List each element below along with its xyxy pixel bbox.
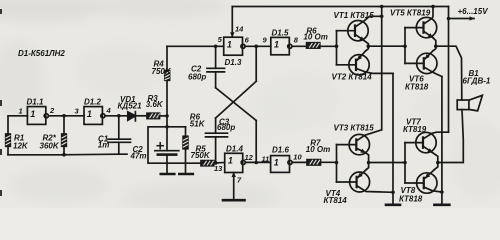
scan mark left edge 4	[0, 190, 2, 196]
diode VD1	[128, 112, 147, 121]
node C1 tap	[117, 114, 121, 118]
node VT4 collector on ground line	[391, 191, 395, 195]
scan mark left edge 2	[0, 100, 2, 106]
ground bar pin7	[223, 199, 245, 202]
wire emitters to speaker bottom	[438, 110, 464, 163]
top +V rail	[232, 6, 448, 8]
node VT3 VT4 emitters	[367, 161, 371, 165]
inverter D1.6	[271, 156, 293, 173]
transistor VT1	[337, 16, 382, 46]
wire D1.6 out to R7	[292, 161, 307, 163]
inverter D1.2	[84, 107, 105, 125]
wire R6 to VT1 VT2 bases	[321, 45, 337, 47]
resistor R7 10 Om	[307, 160, 321, 165]
wire base node vertical upper output	[404, 28, 406, 64]
wire R1 bottom to rail	[7, 146, 9, 155]
node VT1 collector join	[380, 14, 384, 18]
transistor VT5	[405, 7, 437, 47]
inverter D1.3	[224, 37, 245, 55]
node VT8 collector join	[440, 190, 444, 194]
capacitor C2 47m electrolytic	[155, 143, 179, 174]
wire emitters to VT7 VT8 bases	[369, 162, 405, 164]
node detour tap	[165, 125, 169, 129]
wire detour to R5	[148, 127, 201, 163]
wire emitters to speaker top	[436, 46, 462, 100]
node M vertical to C2 47m	[166, 116, 168, 151]
node VT3/VT4 base join	[335, 161, 339, 165]
power pin 7 wire with arrow to ground	[233, 173, 235, 200]
wire ground branch VT2 VT4	[392, 73, 394, 204]
transistor VT7	[405, 132, 449, 162]
node VT1/VT2 base join	[335, 44, 339, 48]
wire D1.2 out to VD1	[105, 115, 128, 117]
transistor VT6	[405, 46, 442, 76]
resistor R6 10 Om	[307, 43, 320, 48]
resistor R1	[6, 134, 11, 146]
ground bar far right	[434, 204, 449, 207]
node VT5/VT6 base join	[403, 44, 407, 48]
inverter D1.4	[225, 153, 246, 172]
crossover X wires	[216, 46, 257, 162]
wire VT6 collector to ground	[441, 77, 443, 205]
ground bar under C2 47m	[161, 173, 175, 176]
transistor VT4	[337, 163, 394, 193]
node X upper tap	[254, 45, 258, 49]
transistor VT3	[337, 130, 382, 163]
transistor VT8	[405, 163, 442, 194]
node rail join	[380, 5, 384, 9]
node R2 bottom on rail	[62, 153, 66, 157]
node C3 bottom tap	[214, 161, 218, 165]
node M	[165, 114, 169, 118]
resistor R5 750K	[201, 161, 214, 166]
wire +V rail down right side	[448, 7, 450, 133]
resistor R3	[147, 113, 160, 118]
capacitor C1	[108, 116, 131, 154]
node +V arrow tap	[447, 17, 451, 21]
node VT1 VT2 emitters	[367, 44, 371, 48]
power pin 14 wire with arrow	[231, 7, 233, 37]
scan mark left edge 3	[0, 149, 2, 155]
node C2 680p tap	[214, 45, 218, 49]
+V arrow	[449, 18, 475, 20]
node VT5 collector on rail	[431, 5, 435, 9]
scan mark left edge 1	[0, 9, 2, 14]
wire bottom floating rail	[8, 153, 127, 156]
wire D1.4 out to D1.6 in	[245, 161, 270, 163]
wire base node vertical upper driver	[336, 31, 338, 65]
wire D1.5 out to R6	[292, 45, 307, 47]
resistor R4	[165, 46, 170, 116]
ground bar under R6 51K	[179, 173, 193, 176]
node VT7/VT8 base join	[403, 161, 407, 165]
capacitor C2 680p	[207, 46, 225, 88]
transistor VT2	[337, 46, 394, 75]
node R2 tap	[62, 114, 66, 118]
wire R5 to D1.4 pin13	[214, 162, 225, 165]
wire R3 to node M	[160, 115, 168, 117]
wire R7 to VT3 VT4 bases	[321, 161, 337, 163]
capacitor C3 680p	[206, 133, 228, 163]
wire D1.1 out to D1.2 in	[48, 115, 84, 117]
wire base node vertical lower driver	[336, 145, 338, 182]
node VT7 VT8 emitters	[436, 161, 440, 165]
wire R4 top to D1.3 input pin5	[167, 45, 224, 47]
wire base node vertical lower output	[404, 143, 406, 183]
inverter D1.1	[27, 107, 48, 125]
resistor R6 51K	[183, 127, 188, 174]
node X lower tap	[254, 161, 258, 165]
speaker B1	[457, 95, 482, 111]
node VT5 VT6 emitters	[434, 44, 438, 48]
wire emitters to VT5 VT6 bases	[368, 45, 405, 47]
wire +V branch VT1 VT3	[381, 7, 383, 130]
ground bar mid right	[386, 204, 400, 207]
inverter D1.5	[271, 37, 292, 54]
wire D1.3 out to D1.5 in	[245, 45, 271, 47]
wire D1.1 input from R1	[8, 116, 27, 134]
resistor R2*	[62, 116, 67, 155]
